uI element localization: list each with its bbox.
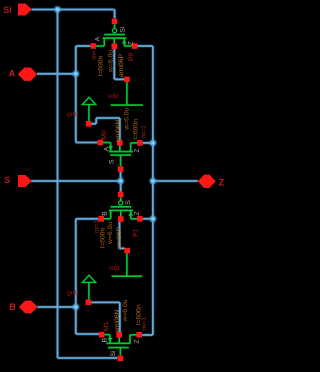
svg-text:P1: P1: [132, 228, 139, 237]
svg-text:Z: Z: [134, 339, 141, 343]
svg-text:Z: Z: [127, 41, 134, 45]
svg-text:M1: M1: [103, 321, 110, 331]
svg-text:m=1: m=1: [140, 125, 147, 139]
svg-text:Z: Z: [134, 211, 141, 215]
svg-text:P0: P0: [128, 52, 135, 61]
svg-text:B: B: [102, 211, 109, 216]
svg-text:Z: Z: [219, 177, 225, 187]
svg-text:A: A: [104, 146, 111, 151]
svg-text:M0: M0: [101, 130, 108, 140]
svg-text:A: A: [9, 68, 16, 78]
svg-text:w=6.0u: w=6.0u: [124, 107, 131, 130]
svg-text:ami06N: ami06N: [114, 309, 121, 333]
svg-text:ami06N: ami06N: [115, 119, 122, 143]
svg-text:m=1: m=1: [141, 317, 148, 331]
svg-text:ami06P: ami06P: [118, 53, 125, 77]
svg-text:A: A: [94, 36, 101, 41]
svg-text:S: S: [125, 200, 132, 205]
svg-text:l=600n: l=600n: [133, 119, 140, 140]
svg-text:l=600n: l=600n: [98, 55, 105, 76]
svg-text:w=6.0u: w=6.0u: [108, 50, 115, 73]
svg-text:S: S: [4, 175, 10, 185]
svg-text:Si: Si: [3, 5, 12, 15]
svg-text:S: S: [109, 159, 116, 164]
svg-text:Si: Si: [119, 26, 126, 33]
svg-text:vdd: vdd: [108, 93, 119, 100]
svg-text:Z: Z: [134, 148, 141, 152]
svg-text:gnd: gnd: [67, 111, 79, 118]
svg-text:vdd: vdd: [109, 265, 120, 272]
svg-text:gnd: gnd: [67, 289, 79, 296]
svg-text:B: B: [9, 302, 16, 312]
svg-text:Si: Si: [110, 350, 117, 357]
svg-text:ami06P: ami06P: [116, 226, 123, 250]
svg-text:w=6.0u: w=6.0u: [122, 299, 129, 322]
svg-text:B: B: [102, 338, 109, 343]
svg-text:w=6.0u: w=6.0u: [107, 222, 114, 245]
svg-text:l=600n: l=600n: [100, 227, 107, 248]
